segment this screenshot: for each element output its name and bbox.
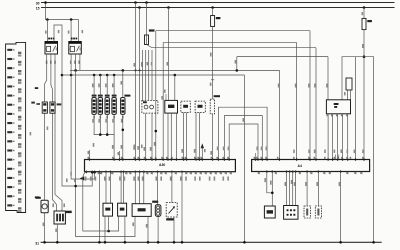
wire L2 end drop to ground bus bbox=[243, 75, 246, 244]
switch E32 bbox=[165, 100, 178, 113]
ECU A4 top stub pin 255 bbox=[255, 153, 257, 160]
injector N33 bbox=[112, 95, 117, 119]
wires E30 bottom to ECU A bbox=[196, 112, 199, 159]
wire G14 to ground bus bbox=[157, 216, 160, 243]
wires ECU B to T10 connector bbox=[285, 172, 296, 206]
injector N30 bbox=[92, 95, 97, 119]
ECU A30 main control unit bbox=[85, 160, 236, 172]
ECU A4 right control unit bbox=[252, 160, 370, 172]
connector N73 block bbox=[52, 204, 71, 225]
connector T10 bbox=[284, 206, 298, 220]
wire T30 to y231 node bbox=[108, 216, 110, 231]
wire ECU A to G14 top bbox=[157, 172, 159, 205]
unit A10 (dashed) bbox=[181, 101, 190, 112]
ECU A4 top pin labels bbox=[254, 157, 364, 159]
wire bridge loop 2 ECU A to ECU B bbox=[224, 116, 262, 160]
switch unit E1 (dashed) bbox=[142, 100, 158, 113]
ECU A4 extra top stubs bbox=[334, 150, 342, 160]
pin tick on F6 wire bbox=[211, 79, 214, 81]
wires ECU A to E31 top bbox=[121, 172, 123, 204]
wire row y30.7 to ECU B pin 310 bbox=[155, 31, 311, 160]
wires ECU A to B30 top bbox=[135, 172, 144, 204]
sensor N90 with circle symbol bbox=[36, 197, 49, 213]
resistor N (left dropping resistor 2) bbox=[50, 102, 61, 113]
wire A149 to ground bus bbox=[173, 217, 176, 244]
wire right fuse down to junction y56.7 bbox=[362, 30, 365, 160]
connector dashed box 2 bottom right bbox=[315, 206, 321, 218]
wire ECU A ground pin to bus bbox=[181, 172, 184, 244]
wire bus30 to relay feed rail bbox=[44, 1, 78, 41]
arrow continuation above ECU A pin 202 bbox=[201, 143, 206, 159]
wire relay1 coil loop down to ECU A via y186 bbox=[54, 25, 93, 186]
wire N90 to ground bus bbox=[43, 213, 46, 244]
connector T26 multi-pin block bbox=[6, 42, 26, 212]
wire T30 to ground bus bbox=[104, 216, 107, 244]
wire right routing y56.7 rail bbox=[342, 57, 374, 243]
wire ECU A to A149 top bbox=[171, 172, 173, 203]
switch E30 (dashed) bbox=[195, 101, 205, 112]
supply line L2 from relay1 bbox=[62, 74, 245, 77]
fuse F6 bbox=[210, 6, 220, 99]
svg-text:A4: A4 bbox=[298, 164, 302, 168]
wires E32 bottom to ECU A bbox=[168, 113, 176, 159]
wire row y56.6 from L1 to unit box right bbox=[235, 57, 328, 100]
wire ECU B ground pin to bus bbox=[339, 172, 342, 244]
wire B30 to ground bus bbox=[132, 216, 149, 243]
unit E31 bbox=[118, 203, 127, 216]
unit A149 (dashed) with arrow bbox=[166, 203, 177, 221]
labels bridge wires bbox=[217, 147, 267, 151]
node injector5 return junction bbox=[122, 129, 125, 132]
wire right rail drop to ECU B pin 355 bbox=[354, 57, 356, 160]
wire injector5 return to ECU A bbox=[122, 114, 124, 159]
wire E31 to ground bus bbox=[124, 216, 127, 244]
wire bridge loop 1 ECU A to ECU B bbox=[218, 107, 267, 159]
wires ECU B to B64 with junction bbox=[264, 172, 273, 207]
wires E1 bottom to ECU A bbox=[146, 113, 152, 159]
wire ECU A pin1 loop to E31 via y231 bbox=[83, 172, 119, 233]
ECU A4 top pin ticks bbox=[255, 158, 365, 161]
ECU A30 stub pin 119 wire bbox=[118, 151, 120, 160]
wire N73 to ground bus bbox=[55, 224, 58, 244]
relay/unit T30 bbox=[103, 203, 113, 216]
wires ECU A to T30 top bbox=[106, 172, 111, 204]
wire bus15 drop to E32 top bbox=[167, 6, 170, 100]
wire bus30 drop to ECU A pin 135 bbox=[134, 1, 137, 159]
connector T34a (dashed) bbox=[210, 95, 220, 114]
connector small block right (x346) bbox=[344, 78, 352, 100]
ECU A4 top wire labels bbox=[293, 150, 364, 154]
ECU A30 bottom pin ticks bbox=[86, 171, 183, 174]
wire bridge loop 3 ECU A to ECU B bbox=[229, 124, 258, 160]
ECU A30 top pin number labels bbox=[88, 157, 229, 159]
wire labels below ECU A bbox=[85, 177, 229, 181]
injector N32 bbox=[105, 95, 110, 119]
unit B30 bbox=[132, 204, 151, 217]
ECU A4 bottom stub pins and labels bbox=[258, 172, 362, 175]
wire ECU A pin 99 to ground bus bbox=[98, 172, 101, 244]
svg-text:15: 15 bbox=[36, 6, 40, 10]
wires E1 top feeds bbox=[141, 50, 152, 100]
ECU A30 stub pin 89 wire bbox=[88, 150, 90, 160]
unit box A67 right bbox=[326, 100, 350, 114]
injector N31 bbox=[98, 95, 103, 119]
wire relay1 pin2 through resistor to N73 bbox=[51, 54, 57, 211]
svg-text:A30: A30 bbox=[159, 163, 165, 167]
resistor N (left dropping resistor 1) bbox=[30, 102, 49, 136]
sender G14 bbox=[152, 201, 161, 217]
wire relay2 pin1 down to routing y179 into ECU A pin bbox=[71, 54, 96, 179]
ECU A4 bottom pin ticks bbox=[266, 170, 341, 173]
wire injector return tie line to ECU A bbox=[92, 114, 122, 159]
wire row y42.7 ECU A to ECU B pin 295 bbox=[161, 43, 296, 160]
labels left routing area bbox=[66, 172, 76, 182]
wires A10 bottom to ECU A bbox=[184, 112, 187, 159]
wire bus15 drop to ECU A pin 139 bbox=[138, 6, 142, 159]
supply line L1 from relay2 to ECU B pin 279 bbox=[70, 69, 280, 159]
wire relay2 pin3 to L1 bbox=[79, 54, 81, 70]
fuse F (right, on bus 15) bbox=[362, 6, 372, 29]
svg-text:31: 31 bbox=[35, 242, 39, 246]
wire L2 drop to E32 top right bbox=[174, 75, 176, 100]
footnote mark ** bbox=[35, 196, 40, 198]
label on F6 wire bbox=[210, 83, 212, 86]
svg-text:30: 30 bbox=[36, 1, 40, 5]
wire injector feeds from L2 bbox=[92, 75, 114, 98]
wire relay1 pin3 to N73 right pin bbox=[55, 54, 62, 211]
ECU A30 bottom stub pins and labels bbox=[100, 172, 232, 175]
injector N344 bbox=[121, 95, 131, 119]
wire ECU B to dashed box 2 bbox=[316, 172, 318, 207]
bus 30 (battery +) top rail bbox=[36, 1, 395, 5]
ECU A30 top wire labels bbox=[93, 142, 212, 155]
bus 15 (ignition +) rail bbox=[36, 6, 395, 10]
wire F6 through T34a to ECU A bbox=[212, 114, 214, 160]
arrow continuation left of ECU A bbox=[80, 176, 84, 180]
wire ECU B to T? dashed box 1 bbox=[305, 172, 307, 207]
footnote mark * bbox=[35, 87, 38, 89]
wire injector 5 feed from L1 bbox=[121, 70, 123, 97]
connector dashed box 1 bottom right bbox=[304, 206, 311, 218]
relay J17 (relay 1) bbox=[45, 30, 59, 64]
relay J271 (relay 2) bbox=[68, 30, 83, 64]
wire relay2 pin2 down to B30 via y236.6 bbox=[74, 54, 135, 237]
wire F52 output diagonal to row line y47.7 bbox=[147, 45, 317, 160]
node ground join right vertical bbox=[372, 241, 375, 244]
bus 31 (ground) bottom rail bbox=[35, 242, 381, 246]
fuse F52 bbox=[145, 1, 155, 44]
wire relay1 pin1 through resistor to N90 bbox=[45, 54, 47, 200]
stub E32 top left with label bbox=[164, 90, 166, 101]
ECU A30 top pin ticks bbox=[89, 158, 230, 161]
unit B64 bbox=[264, 206, 275, 218]
wires A67 bottom to ECU B bbox=[327, 114, 348, 160]
